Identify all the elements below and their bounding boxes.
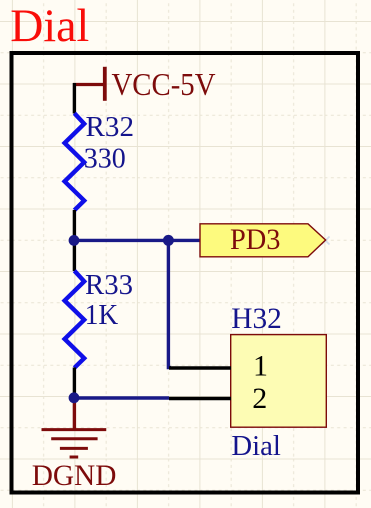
resistor R32 [65, 113, 85, 210]
svg-text:1: 1 [253, 350, 268, 383]
power symbol VCC-5V [73, 67, 105, 101]
wire node A to PD3 [74, 239, 201, 242]
svg-text:Dial: Dial [231, 430, 281, 462]
ground DGND [42, 430, 107, 457]
port PD3 [200, 224, 326, 257]
svg-text:R33: R33 [85, 270, 133, 301]
svg-text:R32: R32 [86, 112, 135, 143]
svg-text:2: 2 [252, 382, 267, 415]
connector H32 [231, 303, 327, 462]
pin 1 [169, 350, 268, 383]
pin 2 [169, 382, 267, 415]
svg-text:PD3: PD3 [230, 224, 281, 256]
junction node C [69, 392, 80, 403]
wire R33 to node C [73, 368, 76, 399]
svg-text:1K: 1K [85, 300, 119, 331]
wire node A to R33 pin [73, 240, 76, 271]
junction node B [163, 235, 174, 246]
wire R32 to node A [73, 210, 76, 240]
wire node C to pin 2 [74, 396, 169, 399]
wire node B down to pin 1 [168, 240, 171, 367]
svg-text:DGND: DGND [32, 460, 117, 492]
svg-text:VCC-5V: VCC-5V [112, 66, 216, 102]
svg-text:Dial: Dial [10, 0, 89, 52]
svg-text:330: 330 [84, 143, 126, 174]
junction node A [69, 235, 80, 246]
wire VCC to R32 pin [73, 83, 76, 114]
resistor R33 [65, 271, 85, 368]
svg-text:H32: H32 [231, 303, 281, 335]
grid cross at port tip [322, 237, 330, 245]
wire node C to ground [73, 398, 76, 430]
